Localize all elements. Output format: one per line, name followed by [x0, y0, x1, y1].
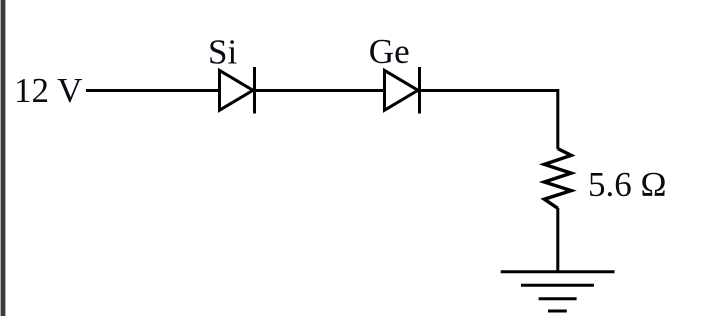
- wire: Ge cathode to top-right corner and down to resistor top: [420, 91, 558, 150]
- diode D1 (Si): [220, 67, 255, 114]
- wire: Si cathode to Ge anode: [255, 89, 387, 92]
- diode D2 (Ge): [385, 67, 420, 114]
- wire: source to Si diode anode: [86, 89, 221, 92]
- svg-text:Ge: Ge: [369, 32, 410, 71]
- ground symbol: [501, 272, 615, 311]
- wire: resistor bottom to ground: [556, 208, 559, 272]
- resistor R1 (zigzag): [544, 149, 571, 209]
- svg-text:Si: Si: [208, 32, 237, 71]
- svg-text:12 V: 12 V: [14, 71, 82, 110]
- svg-text:5.6 Ω: 5.6 Ω: [588, 165, 667, 204]
